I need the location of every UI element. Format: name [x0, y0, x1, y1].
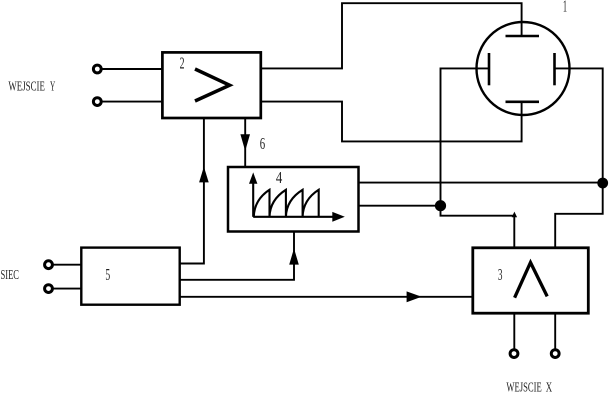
svg-text:3: 3	[498, 265, 503, 284]
block 4 sweep generator	[228, 167, 359, 232]
wire terminal SIEC2 to block 5	[53, 288, 81, 290]
sawtooth vertical axis arrowhead	[249, 172, 257, 183]
wire block 5 to block 2 bottom	[180, 118, 204, 264]
arrowhead right on block5-block3 wire	[407, 291, 422, 302]
CRT top deflection plate	[506, 35, 540, 38]
terminal SIEC2	[45, 285, 53, 293]
block 2 Y amplifier	[162, 52, 260, 118]
svg-text:1: 1	[563, 0, 567, 16]
block 3 X amplifier	[473, 248, 589, 313]
terminal X1	[510, 350, 518, 358]
small up arrowhead at corner above block 3 left pin	[512, 212, 517, 218]
CRT U1 envelope circle	[477, 22, 570, 115]
input terminal Y1	[93, 65, 101, 73]
junction dot node B	[597, 178, 608, 189]
wire terminal Y1 to block 2	[102, 68, 162, 70]
wire Y-amp lower output to CRT bottom plate	[261, 102, 522, 142]
amplifier symbol inside block 2	[195, 69, 230, 101]
wire block 4 lower output to node A	[359, 205, 441, 207]
svg-text:Y: Y	[50, 80, 55, 95]
CRT right deflection plate	[553, 53, 556, 85]
svg-text:WEJSCIE: WEJSCIE	[8, 80, 45, 95]
arrowhead up on block5-block2 wire	[199, 167, 209, 183]
wire CRT right plate down to node B	[555, 68, 603, 183]
arrowhead up on block5-block4 wire	[289, 248, 299, 264]
arrowhead down on trigger wire	[240, 134, 250, 151]
input terminal Y2	[93, 98, 101, 106]
sawtooth teeth waveform	[254, 190, 319, 217]
svg-text:X: X	[546, 380, 552, 395]
svg-text:WEJSCIE: WEJSCIE	[506, 380, 541, 395]
CRT bottom deflection plate	[506, 101, 540, 104]
wire block 3 to terminal X2	[554, 313, 556, 349]
svg-text:5: 5	[105, 265, 110, 284]
svg-text:2: 2	[180, 53, 185, 72]
wire block 2 bottom to block 4 top (trigger)	[244, 118, 246, 167]
wire block 3 to terminal X1	[513, 313, 515, 349]
svg-text:4: 4	[276, 168, 283, 187]
terminal X2	[551, 350, 559, 358]
wire terminal SIEC1 to block 5	[53, 264, 81, 266]
svg-text:SIEC: SIEC	[1, 268, 20, 283]
wire Y-amp upper output to CRT top plate	[261, 3, 522, 68]
wire block 5 to block 4 bottom	[180, 232, 294, 280]
sawtooth horizontal axis arrowhead	[332, 212, 345, 222]
terminal SIEC1	[45, 261, 53, 269]
wire block 4 upper output to node B	[359, 182, 603, 184]
svg-text:6: 6	[260, 134, 265, 153]
sawtooth vertical axis	[252, 180, 254, 217]
wire CRT left plate down to node A	[441, 68, 490, 205]
CRT left deflection plate	[488, 53, 491, 85]
junction dot node A	[435, 200, 446, 211]
wire node B to block 3 top-right pin	[555, 183, 603, 248]
block 5 power supply	[81, 248, 179, 305]
sawtooth horizontal axis	[253, 216, 334, 218]
wire block 5 to block 3 left pin	[180, 296, 473, 298]
caret symbol inside block 3	[515, 263, 548, 298]
wire terminal Y2 to block 2	[102, 101, 162, 103]
wire node A to block 3 top-left pin	[441, 206, 515, 248]
